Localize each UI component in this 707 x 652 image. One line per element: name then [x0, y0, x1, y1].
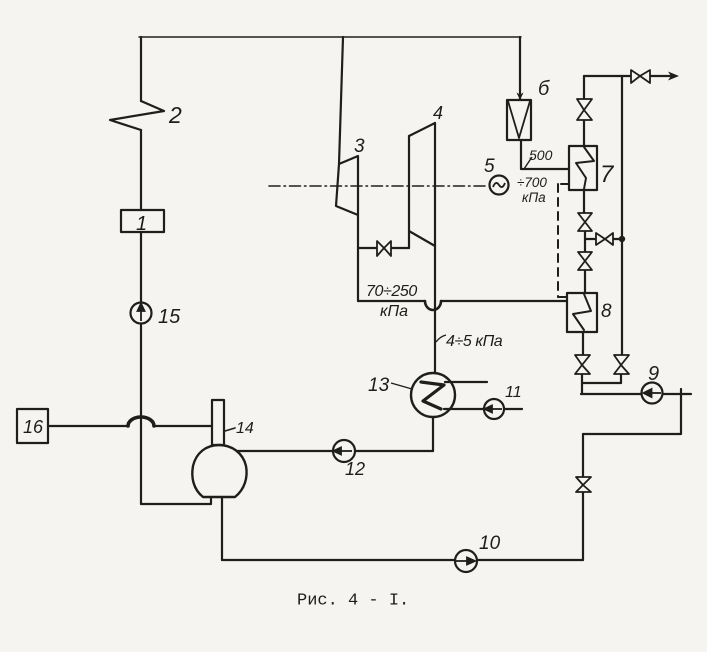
svg-text:÷700: ÷700 — [517, 175, 547, 190]
svg-text:1: 1 — [136, 213, 147, 235]
svg-text:13: 13 — [368, 375, 390, 396]
svg-text:8: 8 — [601, 301, 612, 322]
svg-text:15: 15 — [158, 306, 181, 328]
svg-text:11: 11 — [505, 384, 522, 401]
svg-text:10: 10 — [479, 533, 501, 554]
svg-text:4: 4 — [433, 103, 443, 123]
svg-text:14: 14 — [236, 420, 254, 437]
svg-text:кПа: кПа — [380, 303, 408, 320]
svg-text:5: 5 — [484, 156, 495, 177]
svg-text:9: 9 — [648, 363, 659, 385]
svg-text:16: 16 — [23, 417, 44, 437]
svg-text:4÷5 кПа: 4÷5 кПа — [446, 333, 503, 350]
svg-text:кПа: кПа — [522, 190, 546, 205]
svg-text:3: 3 — [354, 136, 365, 157]
svg-text:12: 12 — [345, 459, 365, 479]
svg-text:7: 7 — [600, 161, 615, 188]
svg-text:б: б — [538, 78, 550, 100]
svg-text:500: 500 — [529, 147, 553, 163]
svg-text:70÷250: 70÷250 — [366, 283, 417, 300]
svg-text:2: 2 — [168, 102, 182, 128]
svg-text:Рис. 4 - I.: Рис. 4 - I. — [297, 592, 409, 611]
